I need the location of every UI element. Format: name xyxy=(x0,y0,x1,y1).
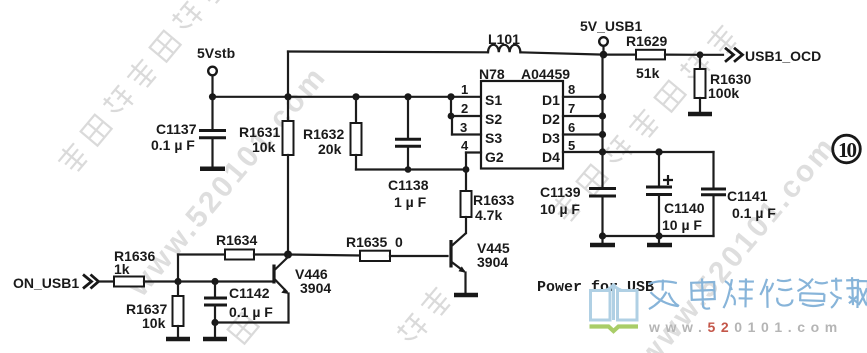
capacitor C1142 xyxy=(204,278,273,338)
svg-text:1: 1 xyxy=(461,82,468,97)
svg-text:R1635 0: R1635 0 xyxy=(346,234,403,250)
resistor R1631 xyxy=(239,93,294,254)
svg-text:3904: 3904 xyxy=(300,280,331,296)
logo book underline swoosh xyxy=(590,327,639,332)
svg-text:S1: S1 xyxy=(485,92,502,108)
node 5V_USB1 terminal xyxy=(580,18,642,58)
wire pin7 D2 xyxy=(563,112,606,119)
svg-text:100k: 100k xyxy=(708,85,739,101)
wire pin4 G2 xyxy=(463,153,481,173)
svg-text:10: 10 xyxy=(838,138,857,162)
svg-text:5Vstb: 5Vstb xyxy=(197,45,235,61)
svg-text:R1631: R1631 xyxy=(239,124,280,140)
wire 5V_USB1 vertical bus xyxy=(601,55,603,97)
svg-text:R1633: R1633 xyxy=(473,192,514,208)
svg-text:R1634: R1634 xyxy=(216,232,257,248)
svg-text:C1139: C1139 xyxy=(540,184,581,200)
ground under V445 xyxy=(454,293,478,298)
svg-text:8: 8 xyxy=(568,82,575,97)
svg-text:C1141: C1141 xyxy=(727,188,768,204)
wire pin8 D1 xyxy=(563,93,606,100)
svg-text:S2: S2 xyxy=(485,111,502,127)
svg-text:6: 6 xyxy=(568,120,575,135)
wire bottom cap rail xyxy=(603,235,714,237)
wire pin5 D4 rail xyxy=(563,148,714,155)
inductor L101 xyxy=(488,31,520,52)
resistor R1634 xyxy=(178,232,292,260)
svg-text:USB1_OCD: USB1_OCD xyxy=(745,48,821,64)
resistor R1637 xyxy=(126,282,184,338)
svg-text:D2: D2 xyxy=(542,111,560,127)
svg-text:1 µ F: 1 µ F xyxy=(394,194,427,210)
logo site name calligraphy xyxy=(648,277,867,310)
svg-text:51k: 51k xyxy=(636,65,660,81)
svg-text:10 µ F: 10 µ F xyxy=(662,217,702,233)
node ON_USB1 input arrow xyxy=(13,275,114,292)
op IC U N78 AO4459 xyxy=(479,66,570,169)
ground under C1140 xyxy=(647,243,672,248)
capacitor C1139 xyxy=(540,152,616,244)
resistor R1630 xyxy=(695,55,752,113)
ground under R1637 xyxy=(166,337,190,342)
node USB1_OCD output arrow xyxy=(725,48,821,64)
wire pin6 D3 xyxy=(563,131,606,138)
wire to OCD arrow xyxy=(700,54,723,56)
svg-text:0.1 µ F: 0.1 µ F xyxy=(732,205,776,221)
svg-text:C1142: C1142 xyxy=(229,285,270,301)
svg-text:R1629: R1629 xyxy=(626,33,667,49)
watermark partial CJK bottom-left xyxy=(228,313,259,344)
svg-text:A04459: A04459 xyxy=(521,66,570,82)
wire G2 rail xyxy=(356,168,466,170)
svg-text:5: 5 xyxy=(568,138,575,153)
svg-text:D1: D1 xyxy=(542,92,560,108)
svg-text:D4: D4 xyxy=(542,149,560,165)
wire main 5V bus xyxy=(213,96,482,98)
svg-text:D3: D3 xyxy=(542,130,560,146)
svg-text:0.1 µ F: 0.1 µ F xyxy=(151,137,195,153)
wire emitter rail xyxy=(215,321,289,323)
ground under R1630 xyxy=(688,112,712,117)
svg-text:S3: S3 xyxy=(485,130,502,146)
svg-text:10 µ F: 10 µ F xyxy=(540,201,580,217)
svg-text:4.7k: 4.7k xyxy=(475,207,502,223)
resistor R1633 xyxy=(461,170,515,234)
svg-text:3: 3 xyxy=(460,120,467,135)
wire pin2 S2 xyxy=(447,93,481,119)
wire top bus after L101 xyxy=(520,52,636,54)
resistor R1635 xyxy=(288,234,448,261)
svg-text:7: 7 xyxy=(568,101,575,116)
svg-text:www.520101.com: www.520101.com xyxy=(648,319,843,335)
svg-text:ON_USB1: ON_USB1 xyxy=(13,275,79,291)
svg-text:1k: 1k xyxy=(114,261,130,277)
transistor V446 3904 xyxy=(274,255,331,323)
svg-text:5V_USB1: 5V_USB1 xyxy=(580,18,642,34)
svg-text:C1138: C1138 xyxy=(388,177,429,193)
wire base riser xyxy=(177,255,179,282)
svg-text:N78: N78 xyxy=(479,66,505,82)
svg-text:2: 2 xyxy=(461,101,468,116)
watermark CJK line left xyxy=(55,0,228,175)
wire top bus xyxy=(288,50,488,53)
wire base rail xyxy=(178,280,272,282)
capacitor C1138 xyxy=(388,93,429,210)
watermark partial CJK bottom-middle xyxy=(395,284,453,347)
svg-text:20k: 20k xyxy=(318,141,342,157)
watermark CJK middle-right xyxy=(548,22,739,225)
svg-text:L101: L101 xyxy=(488,31,520,47)
sheet number circled 10 xyxy=(833,135,861,163)
svg-text:C1137: C1137 xyxy=(156,121,197,137)
svg-text:10k: 10k xyxy=(142,315,166,331)
capacitor C1137 xyxy=(151,97,226,167)
wire pin3 S3 xyxy=(452,116,481,135)
ground under C1137 xyxy=(200,167,225,172)
logo book icon xyxy=(591,284,638,321)
svg-text:10k: 10k xyxy=(252,139,276,155)
capacitor C1141 xyxy=(701,152,776,236)
svg-text:3904: 3904 xyxy=(477,254,508,270)
node 5Vstb terminal xyxy=(197,45,235,100)
resistor R1636 xyxy=(114,248,182,287)
svg-text:R1632: R1632 xyxy=(303,126,344,142)
resistor R1632 xyxy=(303,93,362,169)
ground under C1139 xyxy=(590,243,615,248)
wire riser to top bus xyxy=(287,52,289,97)
svg-text:C1140: C1140 xyxy=(664,200,705,216)
svg-text:G2: G2 xyxy=(485,149,504,165)
capacitor C1140 electrolytic xyxy=(646,148,705,243)
svg-text:4: 4 xyxy=(461,138,469,153)
transistor V445 3904 xyxy=(451,234,510,294)
resistor R1629 xyxy=(626,33,703,81)
ground under C1142 xyxy=(203,337,227,342)
svg-text:0.1 µ F: 0.1 µ F xyxy=(229,304,273,320)
